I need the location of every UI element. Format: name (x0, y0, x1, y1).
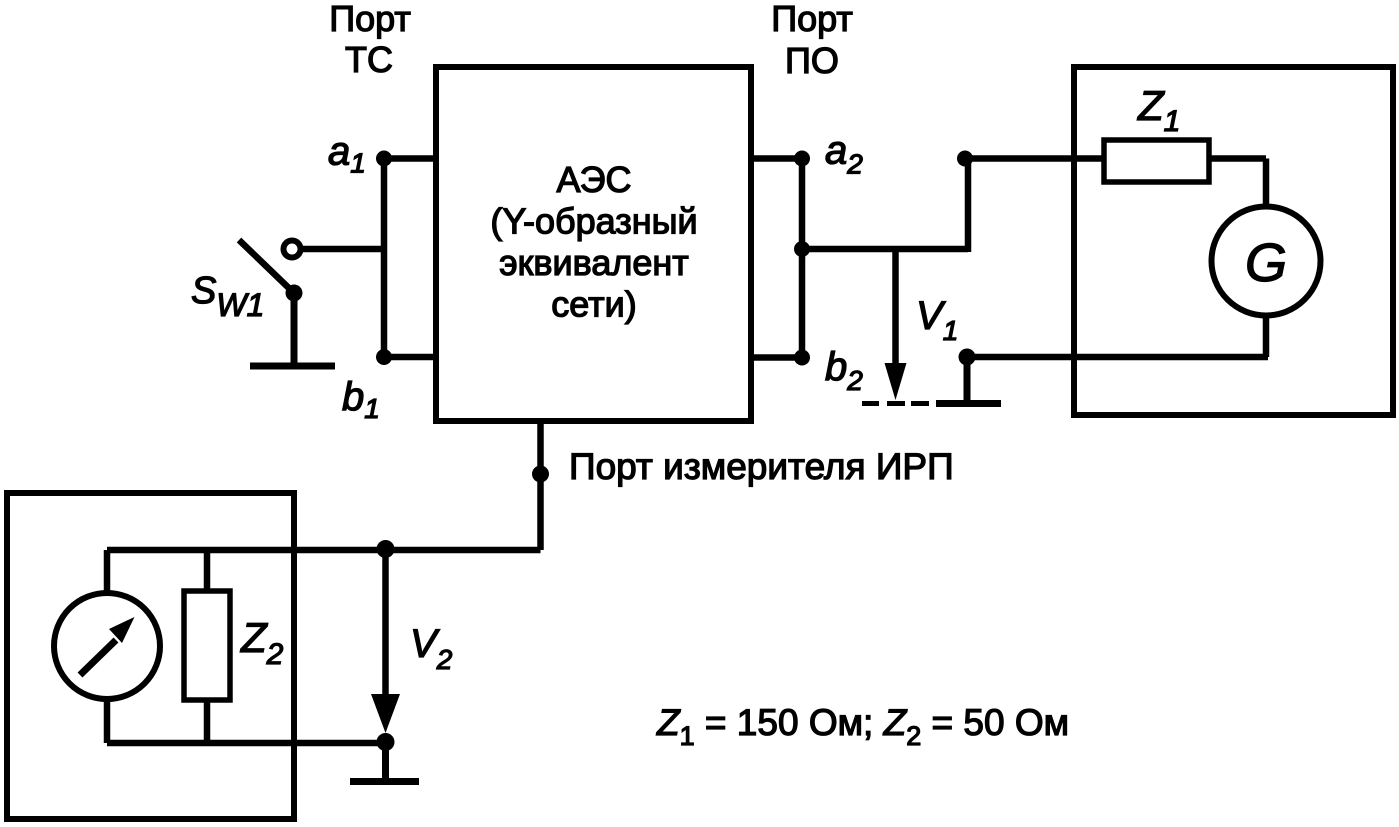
svg-text:сети): сети) (551, 284, 636, 325)
svg-text:(Y-образный: (Y-образный (490, 201, 697, 242)
svg-text:ПО: ПО (785, 40, 839, 81)
svg-text:G: G (1245, 233, 1287, 293)
svg-text:ТС: ТС (345, 39, 393, 80)
svg-text:Порт: Порт (771, 0, 853, 39)
svg-text:Порт измерителя ИРП: Порт измерителя ИРП (569, 446, 954, 487)
svg-text:эквивалент: эквивалент (499, 242, 689, 283)
svg-text:АЭС: АЭС (556, 159, 631, 200)
svg-text:Порт: Порт (329, 0, 411, 39)
